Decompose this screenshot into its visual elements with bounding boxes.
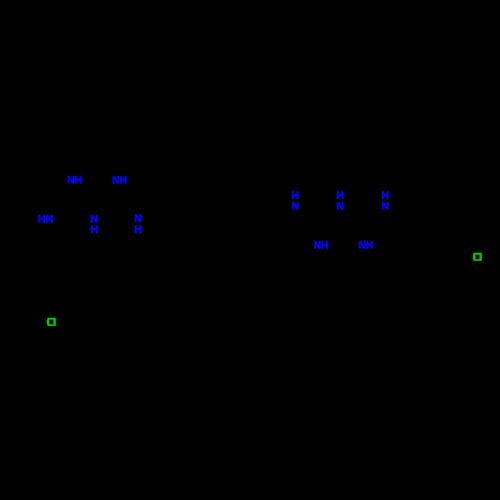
svg-text:N: N	[381, 200, 389, 212]
svg-text:N: N	[291, 200, 299, 212]
svg-text:HN: HN	[38, 213, 54, 225]
svg-text:N: N	[336, 200, 344, 212]
svg-text:H: H	[91, 224, 99, 236]
svg-text:H: H	[134, 224, 142, 236]
svg-text:NH: NH	[314, 239, 329, 251]
atom Cl1 (left chlorophenyl)	[47, 318, 56, 326]
svg-text:NH: NH	[112, 174, 127, 186]
atom Cl2 (right chlorophenyl)	[473, 253, 482, 261]
svg-text:NH: NH	[67, 174, 82, 186]
svg-text:NH: NH	[359, 239, 374, 251]
